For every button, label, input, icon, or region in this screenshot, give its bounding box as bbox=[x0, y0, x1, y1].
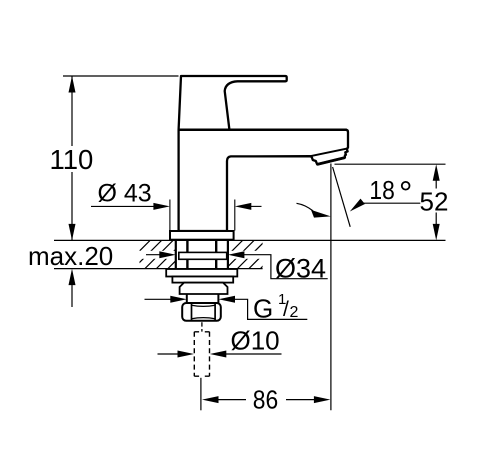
svg-text:Ø10: Ø10 bbox=[231, 325, 280, 355]
svg-text:G: G bbox=[253, 293, 273, 323]
svg-text:°: ° bbox=[399, 175, 413, 213]
svg-text:Ø34: Ø34 bbox=[275, 254, 326, 284]
svg-text:max.20: max.20 bbox=[28, 241, 113, 271]
svg-text:/: / bbox=[283, 298, 289, 321]
svg-text:18: 18 bbox=[369, 175, 394, 205]
svg-text:2: 2 bbox=[290, 304, 299, 321]
svg-text:110: 110 bbox=[50, 144, 94, 175]
svg-text:86: 86 bbox=[253, 385, 278, 415]
svg-text:Ø 43: Ø 43 bbox=[98, 180, 152, 208]
svg-text:52: 52 bbox=[420, 187, 449, 217]
